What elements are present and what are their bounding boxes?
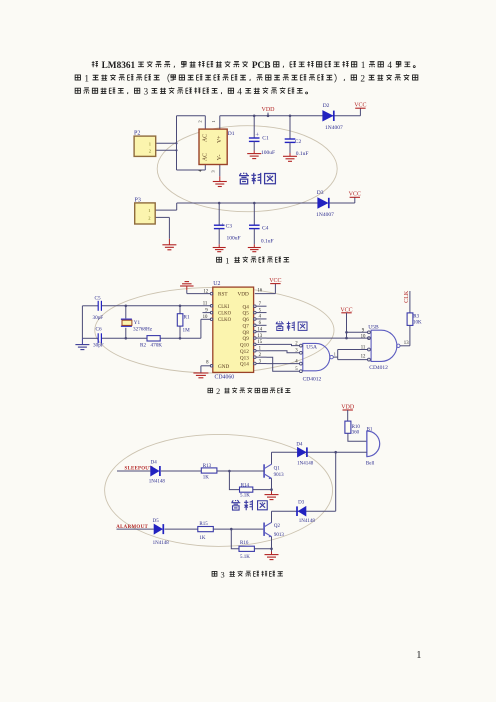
svg-text:2: 2 [360,74,365,84]
svg-text:1N4148: 1N4148 [299,519,316,524]
svg-text:B1: B1 [367,427,373,432]
svg-text:CLKO: CLKO [218,312,232,317]
svg-text:Q7: Q7 [242,323,249,329]
svg-text:VCC: VCC [340,307,352,313]
svg-text:15: 15 [257,340,262,345]
svg-text:CLK: CLK [404,290,410,303]
svg-text:5.1K: 5.1K [240,555,250,560]
svg-text:9013: 9013 [274,473,285,478]
svg-text:V+: V+ [217,136,223,143]
svg-text:470K: 470K [151,343,163,349]
svg-text:D3: D3 [298,501,305,506]
svg-text:R14: R14 [241,483,250,488]
svg-text:1N4148: 1N4148 [297,462,314,467]
svg-text:1K: 1K [199,536,206,541]
svg-text:Q13: Q13 [240,355,249,361]
svg-text:14: 14 [257,327,262,332]
svg-text:（: （ [161,74,170,85]
svg-text:Q4: Q4 [242,304,249,310]
svg-text:100uF: 100uF [227,235,241,241]
svg-text:GND: GND [218,364,229,370]
svg-text:12: 12 [203,290,208,295]
svg-text:1N4148: 1N4148 [153,541,170,546]
svg-text:2: 2 [216,387,220,396]
svg-text:13: 13 [257,334,262,339]
svg-text:U5A: U5A [306,344,317,350]
svg-text:Q1: Q1 [274,467,281,472]
svg-text:+: + [221,222,225,229]
svg-text:VCC: VCC [354,103,366,109]
svg-text:Q8: Q8 [242,330,249,336]
svg-text:CLKI: CLKI [218,305,230,310]
svg-text:）: ） [334,74,343,85]
svg-text:10: 10 [203,315,208,320]
svg-text:Q10: Q10 [240,343,249,349]
svg-text:R16: R16 [240,541,249,546]
svg-text:Y1: Y1 [134,320,141,326]
svg-text:32768Hz: 32768Hz [133,326,153,332]
svg-text:13: 13 [404,341,409,346]
svg-text:C3: C3 [226,223,233,229]
svg-text:Q9: Q9 [242,336,249,342]
svg-text:+: + [255,131,259,138]
svg-text:30pF: 30pF [93,343,104,349]
svg-text:C2: C2 [295,139,302,145]
svg-text:0.1uF: 0.1uF [296,151,309,157]
svg-text:CLKO: CLKO [218,318,232,323]
svg-text:1N4007: 1N4007 [316,212,334,218]
svg-text:Q6: Q6 [242,317,249,323]
svg-text:1: 1 [416,650,421,661]
svg-text:Bell: Bell [366,462,375,467]
svg-text:1: 1 [334,352,336,357]
svg-text:R3: R3 [413,315,419,320]
svg-text:VDD: VDD [262,107,276,113]
svg-text:11: 11 [203,302,208,307]
svg-text:R13: R13 [203,464,212,469]
svg-text:4: 4 [387,61,392,71]
svg-text:U5B: U5B [368,324,379,330]
svg-text:0.1uF: 0.1uF [261,238,274,244]
svg-text:Q5: Q5 [242,311,249,317]
svg-text:D4: D4 [296,443,303,448]
svg-text:Q2: Q2 [274,524,281,529]
svg-text:D5: D5 [153,519,160,524]
svg-text:VDD: VDD [238,291,249,297]
svg-text:11: 11 [361,346,366,351]
svg-text:1M: 1M [183,328,191,334]
svg-text:1: 1 [361,61,366,71]
svg-text:12: 12 [361,355,366,360]
svg-text:5.1K: 5.1K [240,494,250,499]
svg-text:1N4148: 1N4148 [149,480,166,485]
svg-text:D3: D3 [317,190,324,196]
svg-text:VCC: VCC [269,278,281,284]
svg-text:30pF: 30pF [93,315,104,321]
svg-text:360: 360 [352,431,360,436]
svg-text:4: 4 [237,88,242,98]
svg-text:AC: AC [203,134,209,142]
svg-text:D1: D1 [228,131,235,137]
svg-text:10K: 10K [413,321,422,326]
svg-text:P2: P2 [134,131,140,137]
svg-text:3: 3 [143,88,148,98]
svg-text:100uF: 100uF [261,150,275,156]
svg-text:D4: D4 [151,461,158,466]
svg-text:R10: R10 [352,425,361,430]
svg-text:10: 10 [361,334,366,339]
svg-text:9013: 9013 [274,533,285,538]
svg-text:U2: U2 [213,281,220,287]
svg-text:PCB: PCB [252,61,271,71]
svg-text:1N4007: 1N4007 [325,125,343,131]
svg-text:R15: R15 [199,522,208,527]
svg-text:C5: C5 [95,295,101,301]
svg-text:CD4012: CD4012 [369,365,388,371]
svg-text:R2: R2 [140,343,146,349]
svg-text:3: 3 [221,570,225,579]
svg-text:D2: D2 [323,103,330,109]
svg-text:16: 16 [257,289,262,294]
svg-text:VCC: VCC [349,192,361,198]
svg-text:LM8361: LM8361 [102,61,136,71]
svg-text:CD4012: CD4012 [303,377,322,383]
svg-text:C4: C4 [262,225,269,231]
svg-text:Q14: Q14 [240,362,249,368]
svg-text:CD4060: CD4060 [215,375,235,381]
svg-text:R1: R1 [184,315,190,321]
svg-text:RST: RST [218,291,228,297]
svg-text:V-: V- [217,155,223,161]
svg-text:1K: 1K [203,476,210,481]
svg-text:C1: C1 [262,136,269,142]
svg-text:1: 1 [225,255,229,265]
svg-text:Q12: Q12 [240,349,249,355]
svg-text:AC: AC [203,153,209,161]
svg-text:VDD: VDD [341,405,355,411]
svg-text:P3: P3 [135,198,141,204]
svg-text:1: 1 [84,74,89,84]
svg-text:C6: C6 [96,327,102,333]
